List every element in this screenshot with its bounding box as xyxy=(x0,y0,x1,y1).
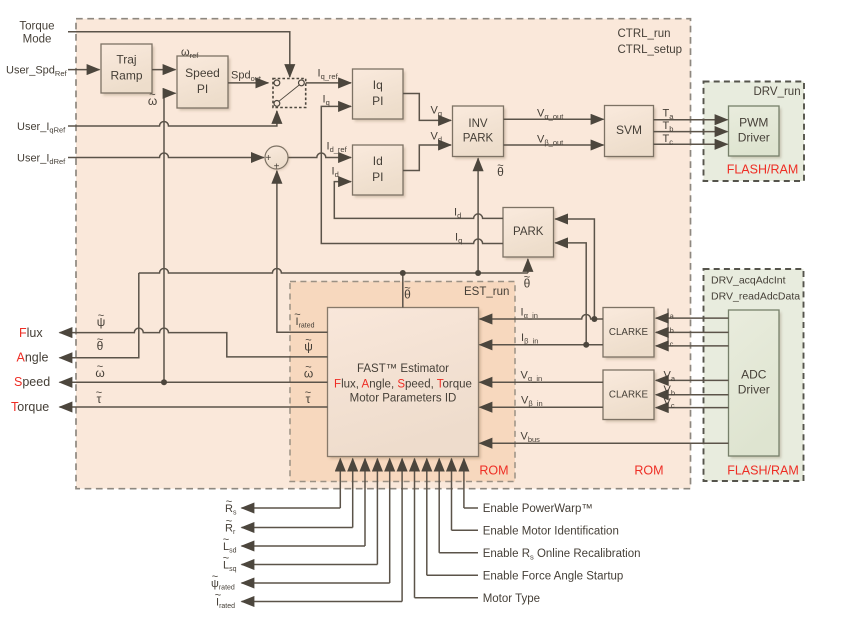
wire Va ADC to CLARKE xyxy=(656,379,729,381)
wire param output line 1 xyxy=(242,507,341,509)
wire Torque Mode to switch xyxy=(68,32,290,77)
wire User_IdRef into summing junction xyxy=(68,153,264,158)
svg-text:EST_run: EST_run xyxy=(464,286,509,298)
block FAST Estimator xyxy=(328,308,481,459)
wire tau torque output xyxy=(60,406,328,408)
svg-text:PARK: PARK xyxy=(463,133,494,145)
wire Vc ADC to CLARKE xyxy=(656,407,729,409)
wire omega feedback into Speed PI xyxy=(164,93,176,382)
block ADC Driver xyxy=(729,310,782,458)
svg-text:~: ~ xyxy=(294,309,300,321)
block Id PI xyxy=(353,145,406,197)
wire config input riser 2 xyxy=(426,459,428,576)
svg-text:Torque: Torque xyxy=(11,400,49,414)
junction I_beta node xyxy=(583,342,589,348)
wire theta distribution line xyxy=(139,269,528,274)
svg-text:~: ~ xyxy=(97,361,103,373)
wire param output riser 2 xyxy=(352,459,354,528)
svg-text:Flux: Flux xyxy=(19,326,43,340)
svg-text:Motor Type: Motor Type xyxy=(483,593,540,605)
svg-text:~: ~ xyxy=(305,362,311,374)
svg-text:Id: Id xyxy=(373,154,383,168)
svg-text:SVM: SVM xyxy=(616,123,642,137)
svg-text:DRV_readAdcData: DRV_readAdcData xyxy=(711,291,800,303)
region DRV_run PWM box xyxy=(704,82,805,182)
wire config input stub 4 xyxy=(452,529,479,531)
wire config input stub 1 xyxy=(415,597,479,599)
wire V_bus ADC to estimator xyxy=(480,442,729,444)
svg-text:Enable Motor Identification: Enable Motor Identification xyxy=(483,525,619,537)
svg-text:Enable Rs Online Recalibration: Enable Rs Online Recalibration xyxy=(483,548,641,562)
svg-text:~: ~ xyxy=(226,496,232,508)
wire I_beta to PARK input xyxy=(555,243,586,345)
svg-text:Motor Parameters ID: Motor Parameters ID xyxy=(350,393,457,405)
svg-text:Iq: Iq xyxy=(373,78,383,92)
wire I_rated estimator to summing junction xyxy=(277,171,328,332)
block CLARKE 1 xyxy=(603,308,656,360)
svg-text:PI: PI xyxy=(372,94,383,108)
block PWM Driver xyxy=(729,106,782,158)
svg-text:Enable PowerWarp™: Enable PowerWarp™ xyxy=(483,503,593,515)
svg-text:~: ~ xyxy=(497,160,503,172)
svg-text:INV: INV xyxy=(468,118,488,130)
svg-text:Torque: Torque xyxy=(19,21,54,33)
wire theta from estimator top xyxy=(402,273,404,308)
wire V_alpha_out INV PARK to SVM xyxy=(504,118,604,120)
wire param output riser 6 xyxy=(401,459,403,602)
wire param output riser 5 xyxy=(389,459,391,583)
svg-text:~: ~ xyxy=(524,272,530,284)
wire Id_ref sum to Id PI xyxy=(288,153,351,158)
svg-text:DRV_acqAdcInt: DRV_acqAdcInt xyxy=(711,275,786,287)
wire Iq feedback PARK to Iq PI xyxy=(321,106,503,243)
svg-text:Driver: Driver xyxy=(738,383,770,397)
svg-text:~: ~ xyxy=(212,571,218,583)
region CTRL controller box xyxy=(76,19,691,489)
svg-text:~: ~ xyxy=(305,387,311,399)
svg-text:ADC: ADC xyxy=(741,368,767,382)
svg-text:PARK: PARK xyxy=(513,226,544,238)
svg-text:~: ~ xyxy=(226,515,232,527)
svg-text:FAST™ Estimator: FAST™ Estimator xyxy=(357,363,449,375)
block INV PARK xyxy=(453,106,506,159)
svg-text:Angle: Angle xyxy=(17,351,49,365)
svg-text:+: + xyxy=(265,153,271,164)
wire param output riser 4 xyxy=(376,459,378,565)
region EST estimator box xyxy=(290,282,515,482)
svg-text:CLARKE: CLARKE xyxy=(609,327,649,338)
svg-text:~: ~ xyxy=(96,387,102,399)
wire Vd Id PI to INV PARK xyxy=(403,145,451,171)
wire theta into PARK xyxy=(527,259,529,273)
svg-text:~: ~ xyxy=(149,89,155,101)
svg-text:Speed: Speed xyxy=(185,66,220,80)
junction I_alpha node xyxy=(591,316,597,322)
wire I_beta_in CLARKE to estimator xyxy=(480,344,604,346)
svg-text:+: + xyxy=(274,162,280,173)
wire param output line 6 xyxy=(242,601,403,603)
svg-text:ROM: ROM xyxy=(479,464,508,478)
svg-text:CLARKE: CLARKE xyxy=(609,389,649,400)
block Speed PI xyxy=(177,56,230,110)
wire config input riser 1 xyxy=(414,459,416,598)
wire V_beta_in CLARKE to estimator xyxy=(480,406,604,408)
svg-text:~: ~ xyxy=(223,534,229,546)
wire config input riser 3 xyxy=(438,459,440,553)
svg-text:Enable Force Angle Startup: Enable Force Angle Startup xyxy=(483,570,624,582)
wire param output line 3 xyxy=(242,545,366,547)
wire User_IqRef to switch xyxy=(68,111,277,126)
wire omega_ref Traj to Speed PI xyxy=(152,69,176,71)
wire Ib ADC to CLARKE xyxy=(656,331,729,333)
svg-text:Mode: Mode xyxy=(23,34,52,46)
block SVM xyxy=(605,106,656,159)
wire Ia ADC to CLARKE xyxy=(656,317,729,319)
wire theta to Angle output xyxy=(60,273,139,358)
wire omega speed output xyxy=(60,381,328,383)
wire I_alpha to PARK input xyxy=(555,219,594,319)
block PARK xyxy=(503,208,556,260)
svg-text:~: ~ xyxy=(305,335,311,347)
svg-text:PI: PI xyxy=(197,82,208,96)
wire Id feedback PARK to Id PI xyxy=(334,182,503,219)
wire Vb ADC to CLARKE xyxy=(656,394,729,396)
wire param output line 5 xyxy=(242,582,390,584)
svg-text:CTRL_run: CTRL_run xyxy=(618,28,671,40)
region DRV ADC box xyxy=(704,269,804,481)
wire Vq Iq PI to INV PARK xyxy=(403,94,451,121)
wire config input riser 4 xyxy=(451,459,453,531)
wire param output riser 3 xyxy=(364,459,366,546)
wire User_SpdRef into Traj Ramp xyxy=(68,69,100,71)
svg-text:Traj: Traj xyxy=(116,53,136,67)
svg-text:Ramp: Ramp xyxy=(110,69,142,83)
svg-text:~: ~ xyxy=(97,334,103,346)
svg-text:FLASH/RAM: FLASH/RAM xyxy=(727,163,799,177)
block CLARKE 2 xyxy=(603,370,656,422)
summing junction Id_ref xyxy=(265,146,289,173)
wire psi flux output xyxy=(60,328,328,357)
block Iq PI xyxy=(353,69,406,121)
wire theta into INV PARK xyxy=(477,158,479,273)
wire Ic ADC to CLARKE xyxy=(656,345,729,347)
block Traj Ramp xyxy=(101,44,154,95)
svg-text:PWM: PWM xyxy=(739,116,768,130)
wire V_beta_out INV PARK to SVM xyxy=(504,144,604,146)
svg-text:FLASH/RAM: FLASH/RAM xyxy=(727,464,799,478)
wire config input stub 2 xyxy=(427,574,478,576)
svg-text:DRV_run: DRV_run xyxy=(754,86,801,98)
svg-text:~: ~ xyxy=(223,552,229,564)
wire V_alpha_in CLARKE to estimator xyxy=(480,381,604,383)
wire param output line 4 xyxy=(242,564,378,566)
svg-text:Driver: Driver xyxy=(738,131,770,145)
wire config input stub 5 xyxy=(464,507,478,509)
wire Tb SVM to PWM Driver xyxy=(654,131,728,133)
wire I_alpha_in CLARKE to estimator xyxy=(480,315,604,319)
wire Ta SVM to PWM Driver xyxy=(654,119,728,121)
junction theta node B xyxy=(475,270,481,276)
wire Spd_out Speed PI to switch xyxy=(228,82,268,84)
switch torque/speed mode selector xyxy=(273,79,306,108)
wire param output line 2 xyxy=(242,527,353,529)
junction theta node A xyxy=(400,270,406,276)
svg-text:PI: PI xyxy=(372,170,383,184)
svg-text:Flux, Angle, Speed, Torque: Flux, Angle, Speed, Torque xyxy=(334,379,472,391)
wire Iq_ref switch to Iq PI xyxy=(306,82,351,84)
svg-text:~: ~ xyxy=(98,310,104,322)
svg-text:~: ~ xyxy=(215,589,221,601)
svg-text:Speed: Speed xyxy=(14,375,50,389)
wire param output riser 1 xyxy=(339,459,341,508)
svg-text:~: ~ xyxy=(404,283,410,295)
wire config input stub 3 xyxy=(439,552,478,554)
wire config input riser 5 xyxy=(463,459,465,508)
junction omega node xyxy=(161,379,167,385)
svg-text:CTRL_setup: CTRL_setup xyxy=(618,44,683,56)
wire Tc SVM to PWM Driver xyxy=(654,143,728,145)
svg-text:ROM: ROM xyxy=(634,464,663,478)
